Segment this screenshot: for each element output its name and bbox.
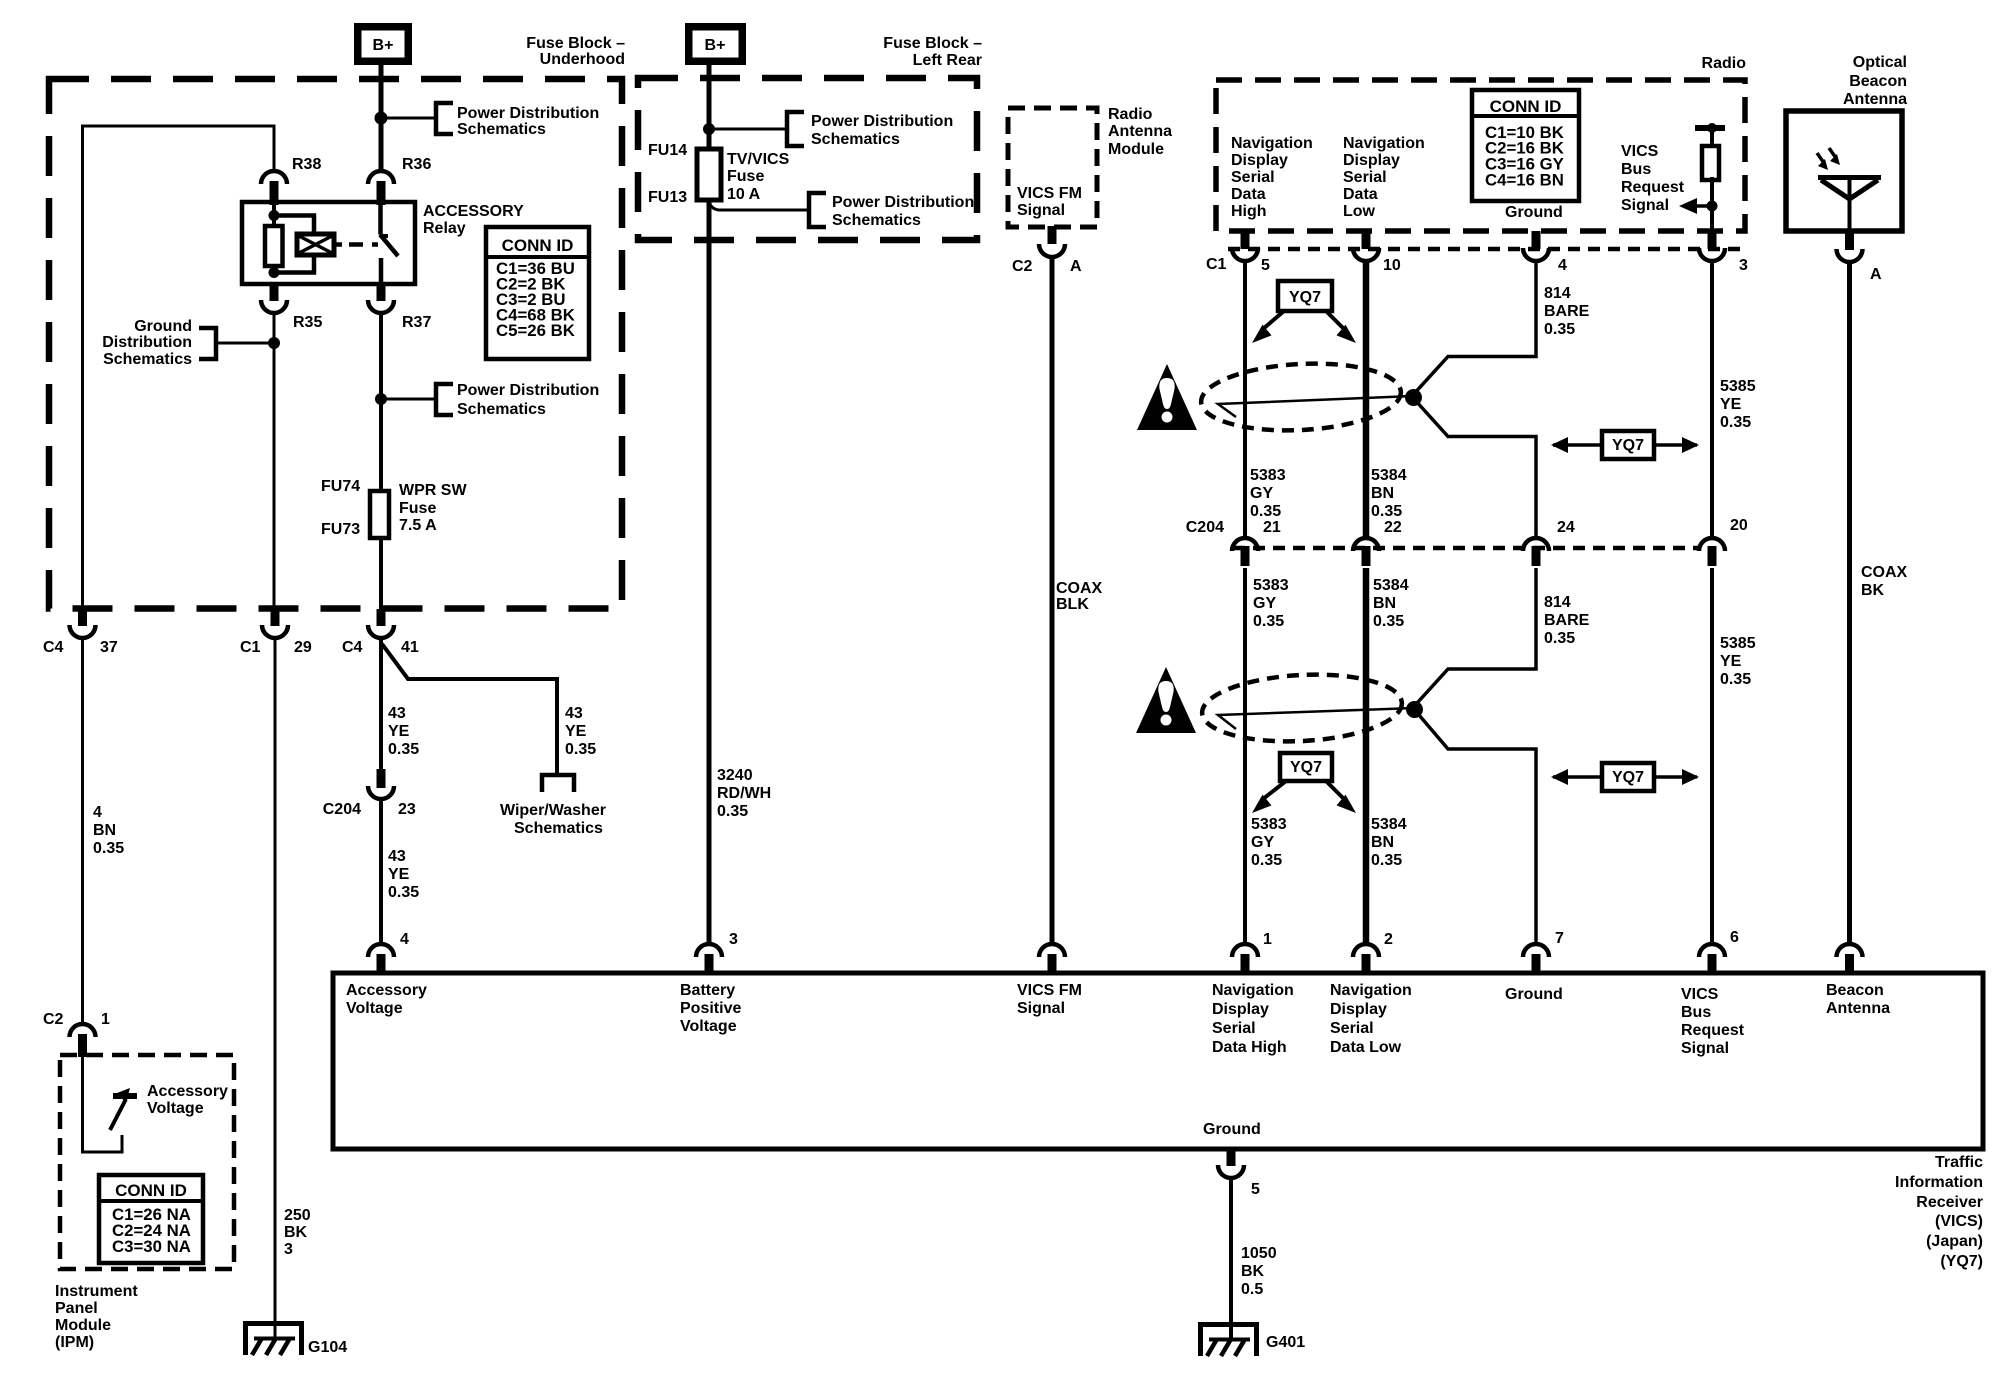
svg-text:C1: C1 (1206, 256, 1227, 273)
label Battery Positive Voltage (box) (680, 982, 741, 1035)
svg-text:Voltage: Voltage (346, 1000, 403, 1017)
labels FU74 FU73 (321, 478, 360, 538)
svg-text:Signal: Signal (1681, 1040, 1729, 1057)
svg-text:C4: C4 (43, 639, 64, 656)
bracket power distribution 4 (809, 193, 826, 227)
svg-text:Display: Display (1330, 1001, 1387, 1018)
svg-text:Serial: Serial (1330, 1020, 1374, 1037)
label Beacon Antenna (box) (1826, 982, 1890, 1017)
relay ACCESSORY box (242, 202, 415, 284)
wire B+ to R36 (379, 65, 384, 172)
svg-text:FU14: FU14 (648, 142, 687, 159)
label Navigation Display Serial Data Low (box) (1330, 982, 1412, 1056)
YQ7 callout 4 (1551, 763, 1699, 791)
svg-text:Ground: Ground (134, 318, 192, 335)
label 43 YE 0.35 lower (388, 848, 419, 901)
shield drain line 1 (1218, 396, 1413, 417)
svg-text:Serial: Serial (1343, 169, 1387, 186)
wire nav high upper (1243, 259, 1247, 536)
B+ terminal (underhood feed) (354, 23, 412, 65)
svg-text:22: 22 (1384, 519, 1402, 536)
label Navigation Display Serial Data High (box) (1212, 982, 1294, 1056)
svg-text:10: 10 (1383, 257, 1401, 274)
svg-text:3: 3 (729, 931, 738, 948)
label Navigation Display Serial Data High (1231, 135, 1313, 220)
wire VICS bus lower (1710, 568, 1714, 945)
svg-text:0.35: 0.35 (1544, 630, 1575, 647)
label 5383 GY 0.35 bottom (1251, 816, 1287, 869)
wire ground drain upper (1412, 259, 1536, 536)
svg-text:Display: Display (1212, 1001, 1269, 1018)
svg-text:0.35: 0.35 (1720, 414, 1751, 431)
bracket power distribution 1 (436, 103, 453, 134)
svg-text:3: 3 (284, 1241, 293, 1258)
svg-text:Schematics: Schematics (457, 121, 546, 138)
dashed shield ellipse 1 (1199, 359, 1402, 435)
svg-text:C4=16 BN: C4=16 BN (1485, 171, 1564, 190)
svg-text:Voltage: Voltage (147, 1100, 204, 1117)
svg-text:Schematics: Schematics (811, 131, 900, 148)
wire nav high lower (1243, 568, 1247, 945)
connector R35 (261, 284, 287, 313)
relay coil pin wire (272, 204, 276, 273)
svg-text:5385: 5385 (1720, 635, 1756, 652)
connector pin 24 (1523, 538, 1549, 566)
connector beacon antenna pin (1837, 944, 1863, 975)
connector C4 41 (368, 609, 394, 638)
svg-text:R37: R37 (402, 314, 431, 331)
label 5383 GY 0.35 below C204 (1253, 577, 1289, 630)
label Ground Distribution Schematics (102, 318, 192, 368)
relay coil bypass loop (274, 216, 314, 273)
wire ground to G401 (1229, 1176, 1233, 1341)
svg-text:(IPM): (IPM) (55, 1334, 94, 1351)
antenna symbol (1818, 178, 1881, 232)
svg-text:Beacon: Beacon (1826, 982, 1884, 999)
svg-text:0.35: 0.35 (1720, 671, 1751, 688)
svg-text:5383: 5383 (1253, 577, 1289, 594)
svg-text:5383: 5383 (1251, 816, 1287, 833)
connector pin 4 (1523, 231, 1549, 261)
svg-text:5383: 5383 (1250, 467, 1286, 484)
svg-text:Serial: Serial (1231, 169, 1275, 186)
label 814 BARE 0.35 lower (1544, 594, 1590, 647)
svg-text:Serial: Serial (1212, 1020, 1256, 1037)
connector A beacon (1837, 233, 1863, 262)
svg-text:BN: BN (1371, 834, 1394, 851)
relay solenoid X-box (297, 234, 334, 255)
YQ7 callout 3 (1252, 753, 1356, 813)
connector VICS FM signal pin (1039, 944, 1065, 975)
svg-text:C2: C2 (1012, 258, 1033, 275)
svg-text:0.35: 0.35 (388, 741, 419, 758)
node coil bottom (269, 267, 280, 278)
svg-text:VICS FM: VICS FM (1017, 185, 1082, 202)
svg-text:24: 24 (1557, 519, 1575, 536)
connector C2 A (1039, 226, 1065, 257)
svg-text:0.35: 0.35 (565, 741, 596, 758)
svg-text:CONN ID: CONN ID (1490, 97, 1562, 116)
svg-text:A: A (1070, 258, 1082, 275)
bracket power distribution 3 (787, 112, 804, 146)
svg-text:Positive: Positive (680, 1000, 741, 1017)
resistor VICS bus termination (1695, 123, 1725, 229)
warning triangle 1 (1137, 364, 1197, 430)
svg-text:Display: Display (1231, 152, 1288, 169)
label 5385 YE 0.35 upper (1720, 378, 1756, 431)
svg-text:C5=26 BK: C5=26 BK (496, 321, 575, 340)
node shield junction 1 (1405, 389, 1422, 406)
svg-text:Fuse Block –: Fuse Block – (526, 35, 625, 52)
svg-text:29: 29 (294, 639, 312, 656)
connector R37 (368, 284, 394, 313)
svg-text:C204: C204 (1186, 519, 1224, 536)
svg-text:Left Rear: Left Rear (913, 52, 982, 69)
svg-text:3: 3 (1739, 257, 1748, 274)
svg-text:Battery: Battery (680, 982, 735, 999)
svg-text:BARE: BARE (1544, 612, 1590, 629)
svg-text:C3=30 NA: C3=30 NA (112, 1237, 191, 1256)
wire fuse to battery pin (707, 200, 712, 945)
svg-text:Request: Request (1681, 1022, 1745, 1039)
svg-text:VICS FM: VICS FM (1017, 982, 1082, 999)
node R35 wire junction (268, 337, 280, 349)
label 5385 YE 0.35 lower (1720, 635, 1756, 688)
svg-text:Instrument: Instrument (55, 1283, 138, 1300)
label VICS FM Signal (1017, 185, 1082, 219)
svg-text:R35: R35 (293, 314, 322, 331)
svg-text:23: 23 (398, 801, 416, 818)
svg-text:B+: B+ (705, 37, 726, 54)
svg-text:Module: Module (55, 1317, 111, 1334)
svg-text:R36: R36 (402, 156, 431, 173)
CONN ID table IPM (99, 1175, 203, 1263)
svg-text:Information: Information (1895, 1174, 1983, 1191)
svg-text:YE: YE (565, 723, 587, 740)
svg-text:Distribution: Distribution (102, 334, 192, 351)
label wire 4 BN 0.35 (93, 804, 124, 857)
node junction on B+ feed (375, 112, 388, 125)
arrow signal direction (1679, 198, 1712, 214)
label 43 YE 0.35 right (565, 705, 596, 758)
dashed box Radio Antenna Module (1008, 108, 1097, 227)
svg-text:10 A: 10 A (727, 186, 761, 203)
svg-text:YQ7: YQ7 (1290, 759, 1322, 776)
svg-text:250: 250 (284, 1207, 311, 1224)
label Instrument Panel Module (55, 1283, 138, 1351)
wire bend to PDS 4 (709, 200, 809, 210)
dashed shield ellipse 2 (1200, 670, 1403, 746)
connector pin 21 (1232, 538, 1258, 566)
svg-text:R38: R38 (292, 156, 321, 173)
connector pin 5 (1232, 231, 1258, 261)
fuse WPR SW (370, 491, 389, 538)
svg-text:1: 1 (101, 1011, 110, 1028)
svg-text:YE: YE (388, 723, 410, 740)
svg-text:BN: BN (1371, 485, 1394, 502)
connector R36 (368, 171, 394, 205)
svg-text:Antenna: Antenna (1843, 91, 1907, 108)
shield drain line 2 (1218, 708, 1414, 729)
bracket power distribution 2 (436, 384, 453, 415)
svg-text:Power Distribution: Power Distribution (457, 105, 599, 122)
connector pin 5 ground (1218, 1149, 1244, 1178)
dashed box Instrument Panel Module (60, 1055, 234, 1269)
svg-text:3240: 3240 (717, 767, 753, 784)
svg-text:0.5: 0.5 (1241, 1281, 1263, 1298)
svg-text:YQ7: YQ7 (1612, 769, 1644, 786)
connector pin 10 (1353, 231, 1379, 261)
label Optical Beacon Antenna (1843, 54, 1907, 108)
svg-text:0.35: 0.35 (388, 884, 419, 901)
svg-text:0.35: 0.35 (1373, 613, 1404, 630)
svg-text:Power Distribution: Power Distribution (811, 113, 953, 130)
connector C4 37 (70, 609, 96, 638)
svg-text:BK: BK (1861, 582, 1885, 599)
dashed box Fuse Block Left Rear (638, 78, 977, 240)
svg-text:Wiper/Washer: Wiper/Washer (500, 802, 606, 819)
svg-text:5384: 5384 (1371, 816, 1407, 833)
svg-text:YE: YE (388, 866, 410, 883)
svg-text:Underhood: Underhood (540, 51, 625, 68)
svg-text:5: 5 (1251, 1181, 1260, 1198)
svg-text:BARE: BARE (1544, 303, 1590, 320)
svg-text:GY: GY (1251, 834, 1274, 851)
svg-text:BN: BN (1373, 595, 1396, 612)
node VICS bus request (1707, 201, 1718, 212)
wire branch PDS 3 (709, 128, 787, 131)
svg-text:43: 43 (565, 705, 583, 722)
svg-text:Fuse Block –: Fuse Block – (883, 35, 982, 52)
svg-text:5384: 5384 (1371, 467, 1407, 484)
svg-text:Ground: Ground (1505, 986, 1563, 1003)
label 814 BARE 0.35 upper (1544, 285, 1590, 338)
wire ground distribution branch (216, 342, 274, 345)
wire branch PDS 2 (381, 398, 436, 401)
wire VICS bus upper (1710, 259, 1714, 536)
connector C2 1 (70, 1024, 96, 1057)
svg-text:2: 2 (1384, 931, 1393, 948)
relay coil resistor (265, 226, 283, 266)
label 3240 RD/WH 0.35 (717, 767, 771, 820)
label 5384 BN 0.35 bottom (1371, 816, 1407, 869)
ground G104 (244, 1321, 303, 1355)
svg-text:4: 4 (93, 804, 102, 821)
svg-text:TV/VICS: TV/VICS (727, 151, 790, 168)
label 5383 GY 0.35 above C204 (1250, 467, 1286, 520)
connector C1 29 (262, 609, 288, 638)
wire nav low lower (1363, 568, 1370, 945)
wire nav low upper (1363, 259, 1370, 536)
ground G401 (1199, 1322, 1258, 1356)
svg-text:4: 4 (1558, 257, 1567, 274)
CONN ID table underhood (486, 227, 589, 359)
dashed connector line C1 radio (1228, 247, 1748, 252)
svg-text:37: 37 (100, 639, 118, 656)
svg-text:Panel: Panel (55, 1300, 98, 1317)
wire B+ to fuse (707, 65, 712, 149)
svg-text:Data Low: Data Low (1330, 1039, 1402, 1056)
label COAX BLK (1056, 580, 1103, 613)
svg-text:(YQ7): (YQ7) (1940, 1253, 1983, 1270)
svg-text:5: 5 (1261, 257, 1270, 274)
svg-text:814: 814 (1544, 594, 1571, 611)
box Optical Beacon Antenna (1786, 111, 1902, 231)
dashed actuator link (334, 242, 378, 247)
svg-text:G104: G104 (308, 1339, 347, 1356)
svg-text:Antenna: Antenna (1826, 1000, 1890, 1017)
dashed connector line C204 (1233, 546, 1700, 551)
svg-text:CONN ID: CONN ID (502, 236, 574, 255)
svg-text:COAX: COAX (1056, 580, 1103, 597)
svg-text:Low: Low (1343, 203, 1376, 220)
connector pin 2 (1353, 944, 1379, 975)
svg-text:BK: BK (284, 1224, 308, 1241)
svg-text:0.35: 0.35 (93, 840, 124, 857)
svg-text:(Japan): (Japan) (1926, 1233, 1983, 1250)
svg-text:Antenna: Antenna (1108, 123, 1172, 140)
svg-text:Module: Module (1108, 141, 1164, 158)
node coil top (269, 210, 280, 221)
label Fuse Block - Underhood (526, 35, 625, 68)
label 43 YE 0.35 left (388, 705, 419, 758)
svg-text:1: 1 (1263, 931, 1272, 948)
connector pin 7 (1523, 944, 1549, 975)
wire C4-41 down (379, 637, 383, 769)
svg-text:6: 6 (1730, 929, 1739, 946)
svg-text:BLK: BLK (1056, 596, 1089, 613)
svg-text:Optical: Optical (1853, 54, 1907, 71)
svg-text:Power Distribution: Power Distribution (832, 194, 974, 211)
connector pin 22 (1353, 538, 1379, 566)
svg-text:Request: Request (1621, 179, 1685, 196)
svg-text:FU13: FU13 (648, 189, 687, 206)
labels FU14 FU13 (648, 142, 687, 206)
svg-text:Fuse: Fuse (399, 500, 436, 517)
svg-text:Radio: Radio (1702, 55, 1747, 72)
svg-text:A: A (1870, 266, 1882, 283)
label VICS Bus Request Signal (box) (1681, 986, 1745, 1057)
fuse TV/VICS (697, 149, 721, 200)
svg-text:Schematics: Schematics (832, 212, 921, 229)
svg-text:YE: YE (1720, 396, 1742, 413)
svg-text:Data: Data (1343, 186, 1378, 203)
svg-text:Navigation: Navigation (1330, 982, 1412, 999)
svg-text:Voltage: Voltage (680, 1018, 737, 1035)
connector pin 1 (1232, 944, 1258, 975)
svg-text:21: 21 (1263, 519, 1281, 536)
label Traffic Information Receiver (1895, 1154, 1983, 1270)
connector pin 3 (1699, 231, 1725, 261)
svg-text:0.35: 0.35 (1371, 852, 1402, 869)
label wire 250 BK 3 (284, 1207, 311, 1258)
svg-text:Accessory: Accessory (346, 982, 427, 999)
wire branch to power distribution (381, 117, 436, 120)
svg-text:0.35: 0.35 (1371, 503, 1402, 520)
svg-text:Data: Data (1231, 186, 1266, 203)
svg-text:Signal: Signal (1621, 197, 1669, 214)
svg-text:Navigation: Navigation (1231, 135, 1313, 152)
connector R38 (261, 171, 287, 205)
connector pin 6 (1699, 944, 1725, 975)
svg-text:Schematics: Schematics (457, 401, 546, 418)
svg-text:Relay: Relay (423, 220, 466, 237)
svg-text:Ground: Ground (1203, 1121, 1261, 1138)
svg-text:GY: GY (1253, 595, 1276, 612)
YQ7 callout 1 (1252, 281, 1356, 343)
svg-text:C4: C4 (342, 639, 363, 656)
svg-text:C2: C2 (43, 1011, 64, 1028)
svg-text:0.35: 0.35 (717, 803, 748, 820)
svg-text:5385: 5385 (1720, 378, 1756, 395)
node PDS junction 2 (375, 393, 387, 405)
svg-text:(VICS): (VICS) (1935, 1213, 1983, 1230)
svg-text:Radio: Radio (1108, 106, 1153, 123)
svg-text:4: 4 (400, 931, 409, 948)
svg-text:Display: Display (1343, 152, 1400, 169)
svg-text:Ground: Ground (1505, 204, 1563, 221)
svg-text:0.35: 0.35 (1253, 613, 1284, 630)
svg-text:BK: BK (1241, 1263, 1265, 1280)
svg-text:C204: C204 (323, 801, 361, 818)
node junction left rear feed (703, 123, 715, 135)
light arrows (1817, 148, 1840, 170)
svg-text:Fuse: Fuse (727, 168, 764, 185)
CONN ID table radio (1472, 90, 1579, 201)
svg-text:Schematics: Schematics (103, 351, 192, 368)
node shield junction 2 (1406, 701, 1423, 718)
svg-text:ACCESSORY: ACCESSORY (423, 203, 524, 220)
wire IPM internal (83, 1057, 123, 1152)
wire C4-37 down (81, 637, 84, 1024)
svg-text:B+: B+ (373, 37, 394, 54)
svg-text:Navigation: Navigation (1343, 135, 1425, 152)
svg-text:Data High: Data High (1212, 1039, 1287, 1056)
svg-text:Traffic: Traffic (1935, 1154, 1983, 1171)
dashed box Radio (1216, 80, 1745, 231)
svg-text:YE: YE (1720, 653, 1742, 670)
svg-text:VICS: VICS (1621, 143, 1659, 160)
svg-text:814: 814 (1544, 285, 1571, 302)
B+ terminal (left rear feed) (685, 23, 746, 65)
wire fuse to box edge (379, 538, 383, 611)
svg-text:GY: GY (1250, 485, 1273, 502)
svg-text:CONN ID: CONN ID (115, 1181, 187, 1200)
wire branch to wiper washer (382, 644, 557, 774)
svg-text:YQ7: YQ7 (1289, 289, 1321, 306)
svg-text:Signal: Signal (1017, 202, 1065, 219)
svg-text:Signal: Signal (1017, 1000, 1065, 1017)
svg-text:C1: C1 (240, 639, 261, 656)
connector pin 4 accessory (368, 944, 394, 975)
label 5384 BN 0.35 above C204 (1371, 467, 1407, 520)
svg-text:7.5 A: 7.5 A (399, 517, 437, 534)
label VICS FM Signal (box) (1017, 982, 1082, 1017)
svg-text:Bus: Bus (1621, 161, 1651, 178)
svg-text:Power Distribution: Power Distribution (457, 382, 599, 399)
label 5384 BN 0.35 below C204 (1373, 577, 1409, 630)
svg-text:0.35: 0.35 (1544, 321, 1575, 338)
wire ground drain lower (1413, 568, 1536, 945)
svg-text:RD/WH: RD/WH (717, 785, 771, 802)
connector pin 20 (1699, 538, 1725, 566)
svg-text:0.35: 0.35 (1250, 503, 1281, 520)
wire C1-29 to G104 (274, 637, 277, 1340)
svg-text:1050: 1050 (1241, 1245, 1277, 1262)
svg-text:Schematics: Schematics (514, 820, 603, 837)
svg-text:7: 7 (1555, 930, 1564, 947)
svg-text:WPR SW: WPR SW (399, 482, 467, 499)
